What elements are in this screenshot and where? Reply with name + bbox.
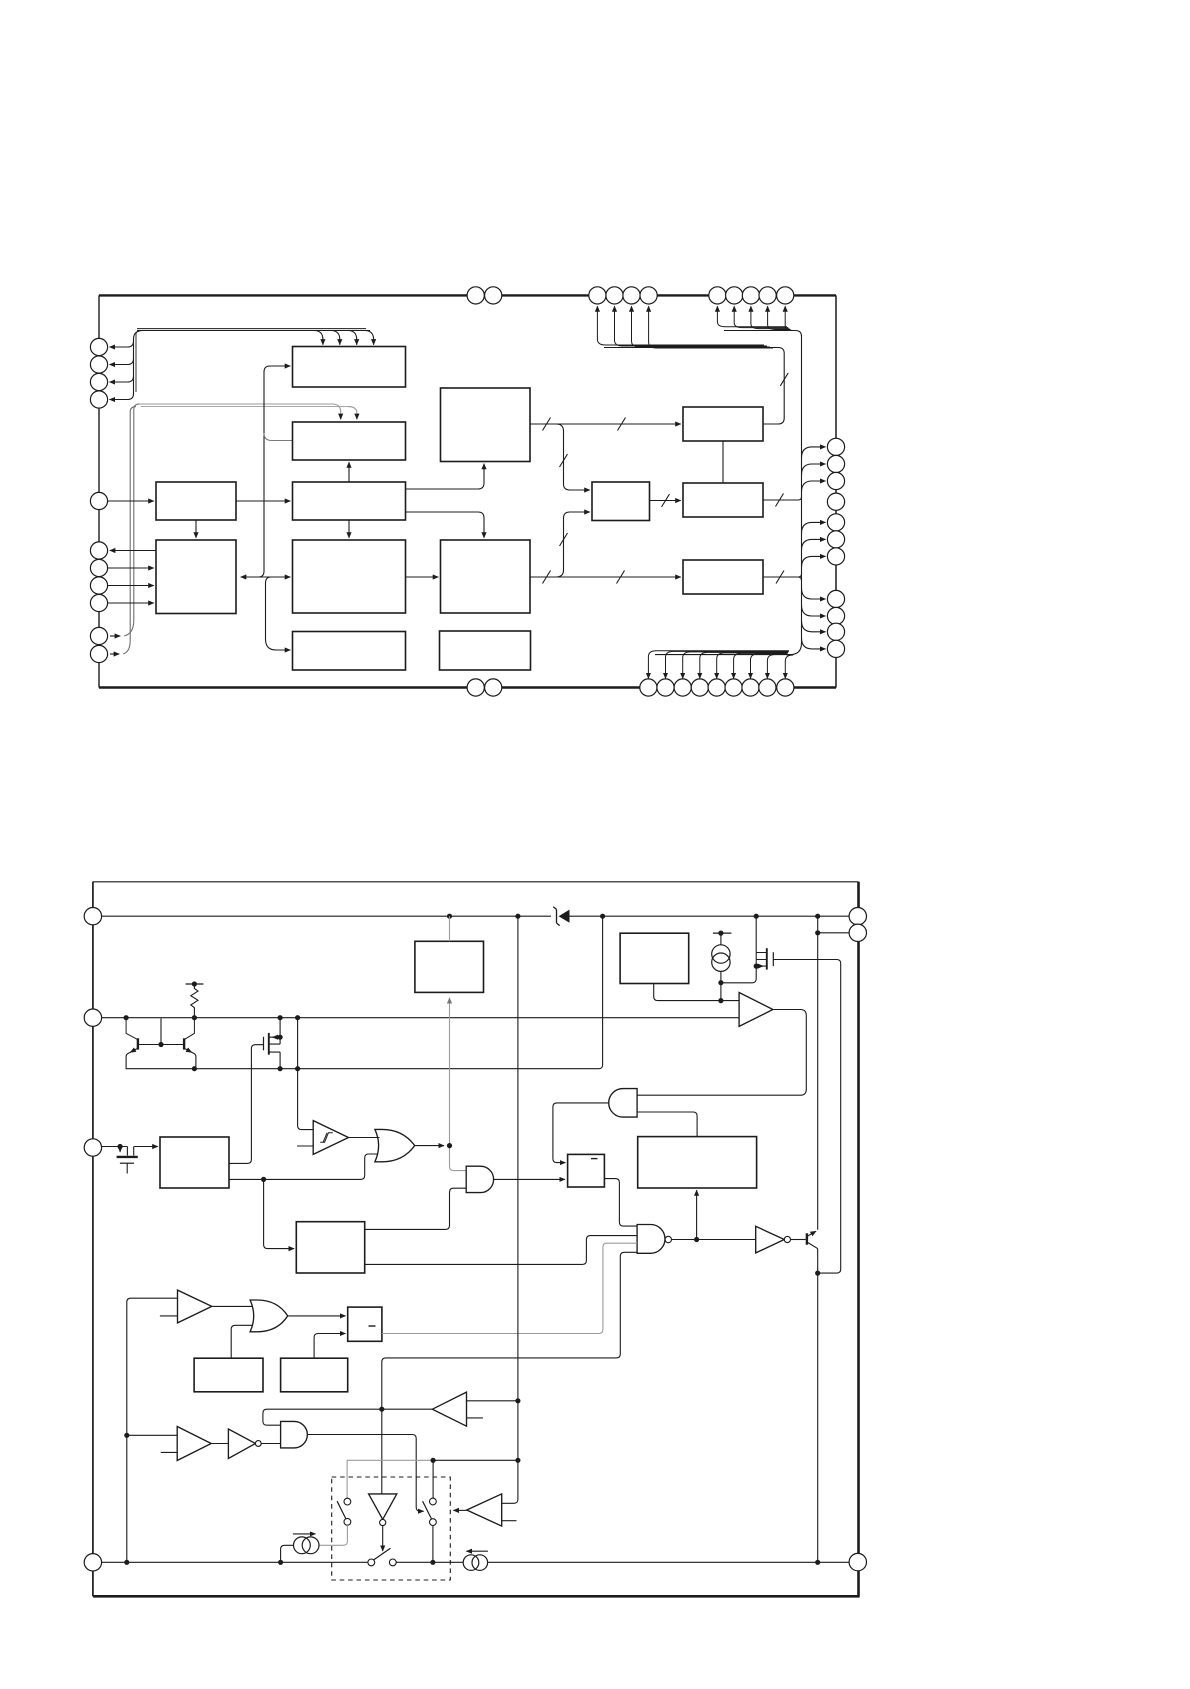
buffer A4 input: [127, 1434, 177, 1436]
block B2 top link: [449, 916, 451, 941]
MOSFET M1 channel bar: [268, 1033, 270, 1055]
wire lower-left pin 11 riser curve: [123, 407, 136, 654]
inverter G9 bubble: [255, 1441, 261, 1447]
top pin group1 #1: [589, 287, 606, 304]
wire block C to block D: [236, 500, 290, 502]
wire bus branch 3 into block A top: [348, 331, 357, 345]
junction VDD/B2: [447, 914, 452, 919]
supply sense vertical: [517, 916, 519, 1401]
MOSFET M1 drain stub: [269, 1037, 280, 1052]
wire block D to block J: [406, 512, 485, 538]
switch SW2 terminal 2: [389, 1559, 396, 1566]
block A (top center register): [293, 347, 406, 388]
bottom pin 8: [759, 679, 776, 696]
mirror base tie: [138, 1044, 184, 1046]
wire to top pin group1 #2: [615, 306, 768, 346]
MOSFET M3 drain stub: [126, 1147, 128, 1156]
right pin 6: [827, 531, 844, 548]
current source CS2 arrow: [466, 1550, 488, 1552]
wire to top pin group2 #2: [734, 306, 788, 327]
schematic outer border: [93, 882, 860, 1597]
current source CS3 circle 2: [712, 953, 730, 971]
ground rail segment 1: [102, 1561, 368, 1563]
right pin 4: [827, 493, 844, 510]
top pin group1 #4: [640, 287, 657, 304]
B1 lower output / OR1 input2: [229, 1154, 378, 1179]
current source CS3 top tap: [713, 932, 732, 934]
block I (tall block): [441, 388, 531, 462]
bus-width slash on P output: [776, 571, 784, 584]
buffer A2 stub: [160, 1315, 178, 1317]
B6 lower output to NAND input2: [365, 1236, 637, 1265]
current source CS3 circle 1: [712, 945, 730, 963]
wire to bottom pin #7: [751, 654, 788, 678]
AND G2 output to B8: [553, 1103, 609, 1163]
buffer A2 output to OR2: [212, 1305, 253, 1307]
transistor Q1 base bar: [137, 1038, 139, 1049]
inverter G8 output arrow to SW2: [382, 1526, 384, 1551]
right pin 10: [827, 623, 844, 640]
resistor R1 body: [191, 984, 198, 1018]
junction bias/mirror-left: [124, 1015, 129, 1020]
bottom pin 2: [657, 679, 674, 696]
buffer A2 triangle: [178, 1290, 212, 1323]
buffer A5 output arrow to SW3: [453, 1509, 466, 1511]
buffer A2 input from feedback: [127, 1298, 178, 1562]
junction bias/schmitt riser: [295, 1015, 300, 1020]
switch1 bottom lead to CS1: [319, 1525, 347, 1545]
IC block diagram outer border: [99, 295, 836, 687]
buffer A3 output left to AND G7: [263, 1409, 433, 1425]
node line black segment: [433, 1459, 518, 1461]
right pin 11: [827, 640, 844, 657]
left pin 3: [90, 373, 107, 390]
wire to top pin group1 #4: [649, 306, 773, 348]
top pin group2 #3: [742, 287, 759, 304]
junction x517/B13 input: [515, 1398, 520, 1403]
wire right bus branch to pin y464: [802, 464, 826, 475]
junction lower rail/schmitt riser: [295, 1066, 300, 1071]
pin3 wire segment 2 to B1: [134, 1146, 158, 1148]
transistor Q3 base bar: [806, 1233, 808, 1244]
block H (center large block): [293, 540, 406, 613]
buffer A5 triangle (left pointing): [467, 1494, 502, 1526]
schmitt trigger input riser: [298, 1018, 314, 1130]
junction OR1 output/gray net: [447, 1143, 452, 1148]
wire left pin bundle vertical: [134, 331, 144, 396]
bus join lower: [259, 571, 265, 577]
top pin group2 #2: [726, 287, 743, 304]
switch SW1 terminal 2: [344, 1518, 351, 1525]
transistor Q3 collector: [807, 1242, 818, 1562]
junction lower rail/FET1: [278, 1066, 283, 1071]
MOSFET M3 gate bar: [120, 1162, 134, 1164]
junction node/switch3: [431, 1458, 436, 1463]
junction NAND output/B5 riser: [694, 1237, 699, 1242]
wire right bus to bottom pin band: [655, 643, 802, 655]
block B3 (bias generator): [620, 933, 689, 983]
zener diode D1 anode triangle: [559, 910, 570, 923]
switch SW3 lever: [423, 1501, 432, 1518]
top pin group1 #2: [606, 287, 623, 304]
MOSFET M3 source stub: [133, 1147, 135, 1156]
inverter G5 bubble: [784, 1236, 790, 1242]
top center pin 2: [485, 287, 502, 304]
schmitt trigger lower stub: [297, 1145, 314, 1147]
current source CS3 bottom lead: [720, 971, 722, 982]
MOSFET M3 gate stem: [126, 1163, 128, 1173]
OR1 output arrow: [415, 1145, 444, 1147]
wire gray bus drop 1 into block B: [332, 404, 341, 415]
schmitt trigger U1 triangle: [313, 1121, 348, 1155]
MOSFET M1 gate wire to B1: [229, 1045, 264, 1164]
current source CS3 top lead: [720, 933, 722, 945]
AND G7 output to switch3 control: [307, 1435, 423, 1512]
block G (bottom center block): [293, 632, 406, 671]
junction VDD/x602: [600, 914, 605, 919]
bus-width slash 2 on J-P wire: [617, 571, 625, 584]
bus-width slash 1 on I-M wire: [543, 418, 551, 431]
block B3 output: [654, 984, 739, 1001]
wire right bus branch to pin y539: [802, 539, 826, 550]
current source CS1 circle 2: [302, 1537, 319, 1554]
wire left pin 8 to block E: [108, 585, 154, 587]
AND G3 output to B8: [494, 1178, 565, 1180]
arrow into block E right edge: [241, 576, 264, 578]
bus corner into block A input: [264, 366, 290, 372]
block B1 (input stage): [160, 1137, 229, 1188]
wire block D to block H: [348, 520, 350, 538]
output pin 1: [849, 908, 866, 925]
junction feedback/B15 input: [124, 1433, 129, 1438]
wire block J to block P: [530, 576, 681, 578]
wire right bus branch to pin y631: [802, 621, 826, 632]
MOSFET M2 left vertical: [755, 916, 757, 966]
left pin 8: [90, 577, 107, 594]
MOSFET M2 gate bar: [772, 952, 774, 966]
mirror diode riser: [160, 1018, 162, 1044]
wire block D to block I: [406, 464, 485, 489]
wire to bottom pin #5: [717, 653, 788, 679]
wire block H to block J: [406, 576, 439, 578]
bus-width slash on N output: [776, 494, 784, 507]
junction gnd/CS1: [278, 1560, 283, 1565]
vertical bus at x264: [263, 372, 265, 571]
transistor Q1 emitter: [126, 1018, 138, 1040]
wire bus branch 1 into block A top: [314, 331, 323, 345]
wire left pin 9 to block E: [108, 602, 154, 604]
current source CS1 arrow: [293, 1533, 316, 1535]
wire to bottom pin #4: [700, 652, 788, 678]
junction CS3/FET3: [718, 980, 723, 985]
ground pin left: [84, 1554, 101, 1571]
bottom pin 1: [640, 679, 657, 696]
top pin group2 #4: [759, 287, 776, 304]
MOSFET M1 bulk dot: [278, 1035, 283, 1040]
block B11 (latch): [348, 1307, 382, 1341]
INV G8 feed vertical: [381, 1409, 383, 1494]
wire bus branch 2 into block A top: [331, 331, 340, 345]
OR gate G1 body: [375, 1129, 415, 1161]
bus-width slash on J-O branch: [560, 533, 568, 546]
wire block C to block E: [195, 520, 197, 538]
node link CS3-FET3: [721, 982, 753, 984]
switch3 bottom lead: [432, 1526, 434, 1563]
junction bias/FET1: [278, 1015, 283, 1020]
schmitt output to OR1: [349, 1137, 380, 1139]
switch SW2 lever: [374, 1548, 391, 1560]
node riser to comparator: [720, 983, 722, 1001]
wire to top pin group2 #5: [785, 306, 793, 330]
wire block P to right bus down: [798, 577, 802, 581]
MOSFET M2 stubs: [756, 953, 767, 967]
MOSFET M2 bulk arrow: [758, 965, 764, 967]
current source CS1 circle 1: [294, 1537, 311, 1554]
left pin 9: [90, 594, 107, 611]
wire block E to left pin 6: [110, 550, 156, 552]
wire to top pin group1 #1: [597, 306, 764, 345]
switch SW3 terminal 2: [430, 1519, 437, 1526]
MOSFET M1 vertical leads: [279, 1018, 281, 1069]
wire to top pin group2 #4: [768, 306, 791, 329]
input pin: [84, 1139, 101, 1156]
AND G2 input2 from B5: [637, 1112, 697, 1137]
wire lower-left pin 11 riser: [110, 653, 119, 655]
wire lower-left pin 10 riser: [110, 635, 120, 637]
left pin 6: [90, 542, 107, 559]
right pin 3: [827, 472, 844, 489]
junction pin3/M3: [118, 1144, 123, 1149]
NAND gate G4 body: [637, 1225, 665, 1254]
left band main line: [137, 330, 370, 332]
wire to bottom pin #2: [666, 651, 789, 678]
wire to left pin 4: [110, 394, 134, 400]
wire left pin 7 to block E: [108, 567, 154, 569]
ground rail segment 3: [488, 1561, 849, 1563]
wire to bottom pin #1: [648, 651, 789, 679]
junction x517/node line: [515, 1458, 520, 1463]
wire pin5 to block C: [108, 500, 154, 502]
right pin 7: [827, 548, 844, 565]
junction VDD/right: [815, 914, 820, 919]
right pin 5: [827, 514, 844, 531]
wire block I to block M: [530, 423, 681, 425]
block D (center register): [293, 482, 406, 520]
wire to left pin 3: [110, 376, 134, 382]
OR G6 input2 from B10: [231, 1325, 253, 1358]
current source CS1 left lead: [281, 1545, 294, 1562]
wire left band second line: [137, 328, 366, 330]
block N (right output block 2): [683, 483, 763, 517]
node line gray segment: [347, 1459, 433, 1461]
arrow into block B input 1: [340, 414, 342, 419]
AND gate G7 body: [281, 1421, 308, 1448]
left pin 2: [90, 356, 107, 373]
wire branch I to block O input1: [556, 424, 590, 490]
junction gnd/feedback: [124, 1560, 129, 1565]
wire lower-left pin 10 riser curve: [124, 404, 139, 636]
inverter G5 output to Q3: [791, 1239, 806, 1241]
block B5 (divider): [638, 1137, 757, 1188]
left pin 5: [90, 492, 107, 509]
ground rail segment 2: [396, 1561, 463, 1563]
block B8 (flip-flop): [568, 1154, 605, 1187]
MOSFET M3 gate lead arrow: [119, 1147, 121, 1152]
wire to bottom pin #8: [767, 654, 787, 678]
AND gate G3 body: [466, 1166, 493, 1192]
supply sense vertical lower: [517, 1401, 519, 1461]
wire block D to block B: [348, 462, 350, 482]
buffer A4 triangle: [177, 1427, 211, 1461]
B1 output riser to B6: [264, 1179, 295, 1248]
bottom pin 4: [691, 679, 708, 696]
wire to top pin group2 #3: [751, 306, 790, 328]
buffer A4 output: [211, 1443, 228, 1445]
B11 gray output to NAND input3: [382, 1243, 637, 1333]
block B10 (timer 1): [194, 1358, 263, 1392]
wire right bus branch to pin y616: [802, 605, 826, 616]
B12 riser to B11 input2: [314, 1334, 345, 1359]
left pin 10: [90, 627, 107, 644]
wire block N to right bus: [763, 497, 802, 501]
transistor Q2 base bar: [183, 1038, 185, 1049]
junction bias/resistor: [192, 1015, 197, 1020]
bottom pin 5: [708, 679, 725, 696]
right pin 2: [827, 455, 844, 472]
gray net corner into AND1: [450, 1146, 467, 1171]
bottom pin 9: [777, 679, 794, 696]
bias rail from pin2: [102, 1017, 740, 1019]
wire right bus branch to pin y599: [802, 588, 826, 599]
gray net B2-OR1-AND1 vertical: [449, 998, 451, 1146]
current source CS2 circle 2: [472, 1555, 488, 1571]
bus branch into block B left: [264, 433, 293, 441]
NAND G4 output: [672, 1239, 756, 1241]
transistor Q1 collector arrow: [130, 1049, 136, 1052]
switch SW2 terminal 1: [368, 1559, 375, 1566]
wire to top pin group2 #1: [717, 306, 787, 327]
wire block O to block N: [650, 500, 681, 502]
left pin 4: [90, 391, 107, 408]
inverter G8 bubble: [380, 1519, 386, 1525]
block P (right output block 3): [683, 560, 763, 594]
current source CS3 tap dot: [718, 931, 723, 936]
ground pin right: [849, 1553, 866, 1570]
transistor Q2 collector arrow: [186, 1049, 192, 1052]
inverter G8 triangle (down): [369, 1494, 397, 1520]
right pin 8: [827, 590, 844, 607]
wire right bus branch to pin y648: [802, 638, 826, 649]
wire to top pin group1 #3: [632, 306, 771, 347]
switch1 top lead: [346, 1460, 348, 1498]
MOSFET M2 bulk dot: [754, 964, 759, 969]
resistor R1 top tap: [186, 983, 204, 985]
bottom pin 3: [674, 679, 691, 696]
MOSFET M2 gate wire: [773, 960, 840, 1274]
x517 corner into B14: [502, 1460, 518, 1503]
transistor Q1 collector: [126, 1048, 138, 1069]
junction VDD/FET3: [754, 914, 759, 919]
switch3 top lead: [432, 1460, 434, 1498]
junction pin6 wire: [815, 930, 820, 935]
buffer A3 triangle (left pointing): [432, 1392, 466, 1426]
transistor Q3 emitter up: [807, 1231, 816, 1236]
bottom center pin 2: [485, 679, 502, 696]
junction B1 output: [261, 1177, 266, 1182]
comparator A1 output: [637, 1010, 806, 1096]
bus lower vertical: [266, 577, 291, 650]
bus-width slash on I-O branch: [560, 454, 568, 467]
block O (small mux block): [592, 482, 650, 521]
bias pin: [84, 1009, 101, 1026]
transistor Q2 emitter: [184, 1018, 194, 1040]
wire top pin group2 bus: [724, 331, 802, 644]
junction VDD/x517: [515, 914, 520, 919]
block K (bottom block): [440, 631, 531, 670]
junction base tie: [158, 1042, 163, 1047]
comparator A1 triangle: [739, 993, 773, 1027]
left pin 11: [90, 645, 107, 662]
arrow into block H left edge: [264, 576, 290, 578]
bus-width slash 2 on I-M wire: [618, 418, 626, 431]
wire to left pin 1: [110, 341, 134, 347]
switch SW1 terminal 1: [344, 1498, 351, 1505]
inverter G5 triangle: [756, 1226, 785, 1253]
junction Q3 collector/gate wire: [815, 1271, 820, 1276]
wire to bottom pin #9: [785, 655, 793, 678]
bottom pin 7: [742, 679, 759, 696]
top center pin 1: [467, 287, 484, 304]
wire gray bus drop 2 into block B: [348, 407, 357, 416]
arrow into block B input 2: [356, 414, 358, 419]
wire bus branch 4 into block A top: [365, 331, 374, 345]
block M (right output block 1): [683, 407, 763, 441]
bus-width slash on O-N wire: [662, 494, 670, 507]
zener diode D1 cathode bar: [553, 907, 559, 926]
right pin 9: [827, 607, 844, 624]
right pin 1: [827, 438, 844, 455]
buffer A5 stub: [502, 1520, 517, 1522]
top pin group2 #1: [709, 287, 726, 304]
AND G3 input2 from B6: [365, 1188, 467, 1229]
wire block P to right bus up: [763, 574, 802, 578]
block J (center-right block): [441, 540, 531, 613]
resistor R1 tap dot: [192, 981, 197, 986]
block B11 minus label: [369, 1325, 376, 1327]
bottom center pin 1: [467, 679, 484, 696]
block B (second register): [293, 422, 406, 460]
VDD rail right segment: [569, 915, 849, 917]
OR gate G6 body: [250, 1300, 288, 1332]
wire right bus branch to pin y522: [802, 522, 826, 533]
buffer A3 input: [467, 1400, 518, 1402]
NAND gate G4 bubble: [665, 1236, 671, 1242]
wire to bottom pin #6: [734, 653, 788, 678]
right pin2 stub: [818, 932, 849, 934]
OR G6 output to B11: [288, 1315, 346, 1317]
junction stub between output pins: [817, 916, 819, 933]
wire gray bus to block B top: [137, 403, 332, 405]
junction A3 output/INV riser: [379, 1407, 384, 1412]
VDD rail left segment: [102, 915, 552, 917]
top pin group1 #3: [623, 287, 640, 304]
transistor Q3 emitter riser: [817, 933, 819, 1230]
buffer A4 stub: [161, 1451, 177, 1453]
top pin group2 #5: [777, 287, 794, 304]
inverter G9 triangle: [228, 1429, 255, 1459]
wire to bottom pin #3: [683, 652, 789, 679]
wire right bus branch to pin y556: [802, 556, 826, 567]
